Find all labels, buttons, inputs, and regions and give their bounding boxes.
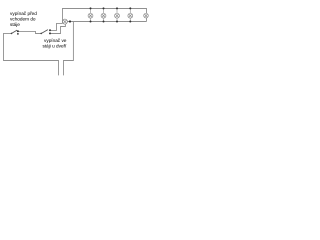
switch S1 blade — [11, 30, 17, 33]
svg-text:vypínač ve: vypínač ve — [44, 38, 67, 43]
lamp E1 inline left — [62, 19, 67, 24]
wire switch2 upper contact to lamp node — [51, 23, 63, 30]
lamp E2 — [88, 8, 93, 22]
wire bottom rail N — [67, 21, 146, 23]
node junction dot at E1 output — [69, 20, 71, 22]
switch S1 lower contact dot — [17, 33, 19, 35]
switch S2 lower contact dot — [49, 32, 51, 34]
node dot E2 bottom — [90, 21, 92, 23]
switch S2 blade — [41, 30, 48, 34]
svg-text:stáji u dveří: stáji u dveří — [43, 43, 68, 48]
wire switch1 feed — [3, 33, 11, 35]
lamp E5 — [128, 8, 133, 22]
wire top rail L — [62, 8, 147, 10]
wire drop from lamp junction — [64, 22, 74, 76]
node dot E2 top — [90, 7, 92, 9]
svg-text:stáje: stáje — [10, 22, 20, 27]
lamp E4 — [115, 8, 120, 22]
node dot E5 top — [129, 7, 131, 9]
lamp E3 — [101, 8, 106, 22]
switch S2 pivot dot — [40, 33, 42, 35]
lamp E6 inline right — [144, 13, 149, 18]
wire right edge down — [146, 8, 148, 13]
svg-text:vchodem do: vchodem do — [10, 16, 36, 21]
node dot E4 top — [116, 7, 118, 9]
switch S2 upper contact dot — [49, 29, 51, 31]
node dot E5 bottom — [129, 21, 131, 23]
wire left loop feed — [4, 34, 59, 76]
wire left riser — [62, 8, 64, 23]
svg-text:vypínač před: vypínač před — [10, 11, 37, 16]
switch S1 upper contact dot — [17, 30, 19, 32]
node dot E3 top — [103, 7, 105, 9]
node dot E3 bottom — [103, 21, 105, 23]
wire traveller between switches — [18, 31, 41, 33]
wire switch2 lower contact to lamp bottom — [51, 24, 66, 33]
node dot E4 bottom — [116, 21, 118, 23]
wire right edge lower — [146, 18, 148, 22]
switch S1 pivot dot — [11, 33, 13, 35]
